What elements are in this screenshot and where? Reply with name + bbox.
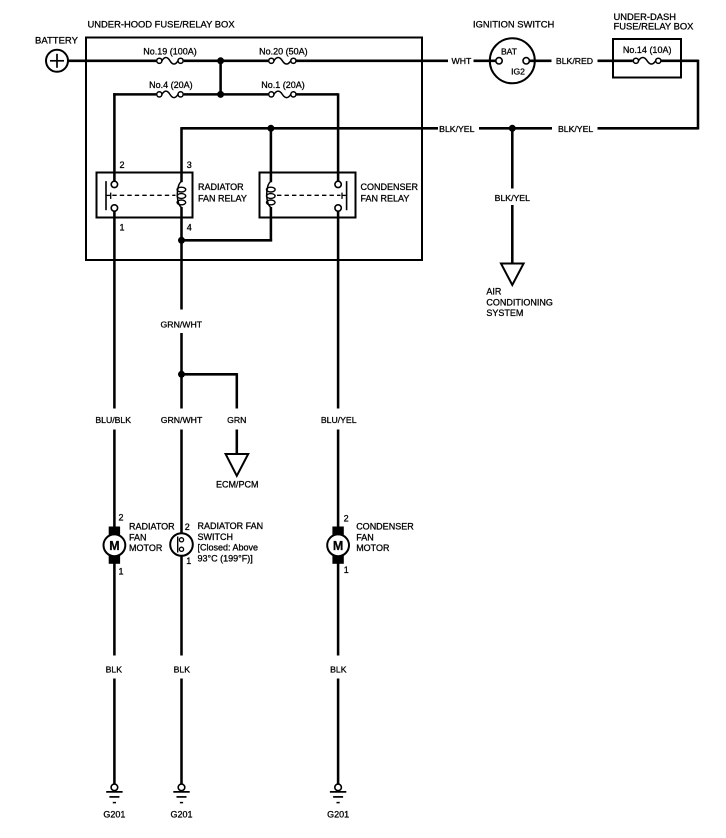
ground G201 (right)	[330, 784, 346, 802]
svg-text:BLK: BLK	[106, 665, 123, 675]
wire row2: fuse No.4 to fuse No.1	[184, 93, 269, 96]
wire fuse No.14 to right corner	[661, 60, 698, 63]
svg-text:SYSTEM: SYSTEM	[486, 308, 523, 318]
fuse No.20 (50A)	[269, 58, 296, 65]
svg-text:BATTERY: BATTERY	[35, 35, 79, 46]
wire row1: fuse No.19 to fuse No.20	[184, 60, 269, 63]
svg-text:CONDENSER: CONDENSER	[356, 522, 414, 532]
ECM/PCM arrow	[226, 454, 249, 476]
svg-text:BLK/RED: BLK/RED	[556, 56, 593, 66]
wire relay pin 1 down to BLU/BLK gap	[113, 211, 116, 408]
svg-text:FAN RELAY: FAN RELAY	[361, 194, 410, 204]
svg-text:BLK/YEL: BLK/YEL	[495, 193, 530, 203]
svg-text:M: M	[109, 539, 119, 553]
condenser fan motor	[327, 527, 349, 564]
ground G201 (left)	[106, 784, 122, 802]
wire condenser coil pin down	[270, 207, 273, 242]
wire vertical connector row1-row2	[219, 61, 222, 95]
wire row2 right corner down to condenser relay switch	[337, 93, 340, 181]
svg-text:No.20 (50A): No.20 (50A)	[259, 46, 308, 56]
ignition switch	[490, 38, 535, 83]
wire row1: battery to fuse No.19	[68, 60, 156, 63]
svg-text:BLK: BLK	[330, 665, 347, 675]
wire BLK/RED to fuse No.14	[598, 60, 633, 63]
svg-text:G201: G201	[170, 810, 192, 820]
svg-text:2: 2	[344, 514, 349, 524]
wire row3: relay pin 3 riser	[180, 127, 183, 182]
wire pin4 junction to condenser coil	[182, 239, 273, 242]
wire condenser coil branch down from row3	[270, 128, 273, 182]
svg-text:1: 1	[186, 556, 191, 566]
condenser fan relay	[260, 173, 356, 218]
junction node GRN/WHT to ECM branch	[178, 371, 185, 378]
svg-text:1: 1	[119, 567, 124, 577]
svg-text:BLU/BLK: BLU/BLK	[95, 415, 131, 425]
wire BLU/BLK to radiator fan motor	[113, 430, 116, 528]
wire ECM branch down to GRN gap	[236, 373, 239, 408]
wire ignition switch IG2 terminal to BLK/RED label gap	[530, 60, 552, 63]
wire BLK to ground G201 (right)	[337, 679, 340, 785]
wire BLK to ground G201 (left)	[113, 679, 116, 785]
radiator fan switch	[170, 533, 193, 556]
svg-text:MOTOR: MOTOR	[129, 543, 163, 553]
wire row2: fuse No.1 to right corner	[297, 93, 339, 96]
svg-text:ECM/PCM: ECM/PCM	[216, 479, 259, 489]
wire row3: pin3 to BLK/YEL gap	[182, 127, 439, 130]
fuse No.19 (100A)	[157, 58, 184, 65]
fuse No.4 (20A)	[157, 91, 184, 98]
wire condenser fan motor to BLK gap	[337, 564, 340, 656]
svg-text:GRN/WHT: GRN/WHT	[161, 319, 203, 329]
wire condenser relay switch down to BLU/YEL gap	[337, 211, 340, 408]
svg-text:RADIATOR: RADIATOR	[129, 522, 175, 532]
svg-text:FAN: FAN	[129, 532, 147, 542]
junction node row3 to condenser coil	[267, 125, 274, 132]
wire ECM branch horizontal	[182, 373, 237, 376]
svg-text:IG2: IG2	[511, 67, 525, 77]
svg-text:BLK/YEL: BLK/YEL	[439, 124, 474, 134]
svg-text:WHT: WHT	[452, 56, 472, 66]
wire row1: fuse No.20 to WHT label gap	[297, 60, 449, 63]
wire GRN/WHT middle segment	[180, 333, 183, 409]
svg-text:3: 3	[187, 160, 192, 170]
svg-text:CONDITIONING: CONDITIONING	[486, 297, 553, 307]
svg-text:BLK/YEL: BLK/YEL	[558, 124, 593, 134]
radiator fan relay	[97, 173, 193, 218]
svg-text:No.4 (20A): No.4 (20A)	[149, 80, 193, 90]
fuse No.14 (10A)	[633, 58, 661, 65]
svg-text:[Closed: Above: [Closed: Above	[198, 543, 259, 553]
svg-text:M: M	[333, 539, 343, 553]
svg-text:BLK: BLK	[174, 665, 191, 675]
wire radiator fan motor to BLK gap	[113, 564, 116, 656]
svg-text:G201: G201	[327, 810, 349, 820]
svg-text:FAN: FAN	[356, 532, 374, 542]
svg-text:BAT: BAT	[501, 47, 518, 57]
battery	[46, 50, 68, 72]
svg-text:2: 2	[120, 160, 125, 170]
wire right corner down	[697, 60, 700, 130]
svg-text:GRN: GRN	[227, 415, 246, 425]
wire BLU/YEL to condenser fan motor	[337, 430, 340, 528]
svg-text:93°C (199°F)]: 93°C (199°F)]	[198, 553, 253, 563]
wire A/C branch down from BLK/YEL junction	[511, 128, 514, 188]
svg-text:SWITCH: SWITCH	[198, 532, 234, 542]
under-hood fuse/relay box	[86, 38, 422, 261]
svg-text:GRN/WHT: GRN/WHT	[161, 415, 203, 425]
svg-text:No.19 (100A): No.19 (100A)	[143, 46, 197, 56]
under-dash fuse/relay box	[613, 39, 681, 78]
wire GRN to ECM/PCM triangle	[236, 430, 239, 456]
svg-text:IGNITION SWITCH: IGNITION SWITCH	[473, 18, 554, 29]
junction node pin4 / coil tie	[178, 237, 185, 244]
svg-text:No.1 (20A): No.1 (20A)	[261, 80, 305, 90]
wire fan switch to BLK gap	[180, 551, 183, 655]
wire radiator relay pin 4 down	[180, 207, 183, 310]
svg-text:4: 4	[187, 223, 192, 233]
wire A/C branch below label to triangle	[511, 205, 514, 264]
svg-text:2: 2	[119, 513, 124, 523]
wire row2 corner down to relay pin 2	[113, 93, 116, 181]
junction node row1/row2 tie	[217, 57, 224, 64]
wire row2: left corner to fuse No.4	[113, 93, 156, 96]
svg-text:MOTOR: MOTOR	[356, 543, 390, 553]
radiator fan motor	[104, 527, 126, 564]
wire BLK to ground G201 (middle)	[180, 679, 183, 785]
svg-text:UNDER-HOOD FUSE/RELAY BOX: UNDER-HOOD FUSE/RELAY BOX	[88, 18, 236, 29]
svg-text:1: 1	[344, 565, 349, 575]
svg-text:FAN RELAY: FAN RELAY	[198, 194, 247, 204]
wire row3: BLK/YEL to BLK/YEL	[479, 127, 552, 130]
fuse No.1 (20A)	[269, 91, 296, 98]
svg-text:2: 2	[185, 522, 190, 532]
svg-text:No.14 (10A): No.14 (10A)	[623, 45, 672, 55]
ground G201 (middle)	[173, 784, 189, 802]
svg-text:RADIATOR: RADIATOR	[198, 182, 244, 192]
svg-text:AIR: AIR	[486, 287, 502, 297]
svg-text:G201: G201	[103, 810, 125, 820]
svg-text:BLU/YEL: BLU/YEL	[321, 415, 357, 425]
wire GRN/WHT lower segment to fan switch	[180, 430, 183, 538]
svg-text:RADIATOR FAN: RADIATOR FAN	[198, 521, 264, 531]
junction node BLK/YEL to A/C branch	[509, 125, 516, 132]
svg-text:CONDENSER: CONDENSER	[361, 182, 419, 192]
A/C system arrow	[501, 264, 524, 286]
svg-text:1: 1	[120, 223, 125, 233]
wire row3: BLK/YEL to right corner	[598, 127, 699, 130]
wire WHT to ignition switch BAT terminal	[474, 60, 496, 63]
svg-text:FUSE/RELAY BOX: FUSE/RELAY BOX	[614, 20, 695, 31]
